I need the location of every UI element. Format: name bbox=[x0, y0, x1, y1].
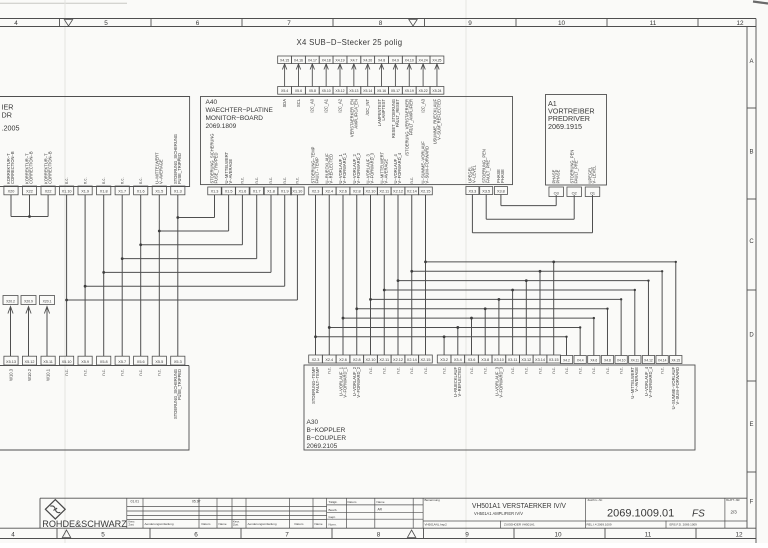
svg-text:B−KOPPLER: B−KOPPLER bbox=[307, 427, 346, 434]
svg-text:X4.6: X4.6 bbox=[590, 358, 597, 362]
svg-text:V−REFLECTED: V−REFLECTED bbox=[457, 367, 462, 397]
svg-text:7: 7 bbox=[287, 20, 291, 27]
svg-text:X4.9: X4.9 bbox=[392, 58, 399, 62]
svg-text:X2.10: X2.10 bbox=[366, 358, 376, 362]
svg-text:X2.11: X2.11 bbox=[379, 358, 389, 362]
svg-text:X1.6: X1.6 bbox=[137, 190, 145, 194]
svg-text:I2C_A2: I2C_A2 bbox=[337, 98, 342, 112]
svg-text:CORRECTION−B: CORRECTION−B bbox=[10, 151, 15, 184]
svg-text:n.c.: n.c. bbox=[101, 369, 106, 376]
svg-text:X2.3: X2.3 bbox=[312, 190, 320, 194]
svg-text:X5.17: X5.17 bbox=[391, 89, 400, 93]
svg-text:X4.20: X4.20 bbox=[363, 58, 372, 62]
svg-text:FAULT_AMPLIFIER: FAULT_AMPLIFIER bbox=[409, 99, 414, 135]
svg-text:Zust.: Zust. bbox=[129, 523, 135, 527]
svg-text:X3.10: X3.10 bbox=[494, 358, 504, 362]
svg-text:X2.10: X2.10 bbox=[366, 190, 376, 194]
svg-text:n.c.: n.c. bbox=[157, 369, 162, 376]
svg-text:X3.2: X3.2 bbox=[440, 358, 448, 362]
svg-text:X4.16: X4.16 bbox=[294, 58, 303, 62]
svg-text:X2.12: X2.12 bbox=[393, 358, 403, 362]
svg-text:FUSE_TRIPPED: FUSE_TRIPPED bbox=[177, 153, 182, 184]
svg-text:B−COUPLER: B−COUPLER bbox=[307, 435, 347, 442]
svg-text:11: 11 bbox=[645, 532, 652, 539]
svg-text:8: 8 bbox=[379, 20, 383, 27]
svg-text:X5.12: X5.12 bbox=[335, 89, 344, 93]
svg-text:W10.1: W10.1 bbox=[46, 368, 51, 381]
svg-text:V−SUM−FORWARD: V−SUM−FORWARD bbox=[675, 367, 680, 405]
svg-text:9: 9 bbox=[465, 532, 469, 539]
svg-text:n.c.: n.c. bbox=[64, 177, 69, 184]
svg-text:X2.8: X2.8 bbox=[353, 190, 361, 194]
svg-text:X2.4: X2.4 bbox=[325, 190, 333, 194]
svg-text:n.c.: n.c. bbox=[409, 367, 414, 374]
svg-text:n.c.: n.c. bbox=[660, 367, 665, 374]
svg-text:V−LEVEL: V−LEVEL bbox=[472, 164, 477, 183]
svg-text:X5.10: X5.10 bbox=[62, 360, 72, 364]
svg-text:X3.5: X3.5 bbox=[482, 189, 490, 193]
svg-text:X22: X22 bbox=[45, 190, 52, 194]
svg-text:I2C_A1: I2C_A1 bbox=[324, 98, 329, 112]
svg-text:Zust.: Zust. bbox=[233, 523, 239, 527]
svg-text:W10.3: W10.3 bbox=[8, 368, 13, 381]
svg-text:X2.15: X2.15 bbox=[421, 190, 431, 194]
svg-text:AMPLIFICA_EN: AMPLIFICA_EN bbox=[353, 99, 358, 129]
svg-text:I2C_A0: I2C_A0 bbox=[310, 98, 315, 112]
svg-text:X2.15: X2.15 bbox=[421, 358, 431, 362]
svg-text:/I2C_INT: /I2C_INT bbox=[365, 99, 370, 116]
svg-text:O1: O1 bbox=[590, 191, 595, 195]
svg-text:X4.15: X4.15 bbox=[671, 358, 680, 362]
svg-text:FAULT−TEMP: FAULT−TEMP bbox=[315, 367, 320, 393]
svg-text:C: C bbox=[749, 239, 754, 245]
svg-text:DR: DR bbox=[2, 111, 12, 120]
svg-text:FAULT_RESET: FAULT_RESET bbox=[395, 99, 400, 128]
svg-text:X20.2: X20.2 bbox=[6, 299, 15, 303]
svg-text:MONITOR−BOARD: MONITOR−BOARD bbox=[206, 115, 264, 122]
svg-text:n.c.: n.c. bbox=[442, 367, 447, 374]
svg-text:Gepr.: Gepr. bbox=[329, 515, 337, 519]
svg-text:n.c.: n.c. bbox=[619, 367, 624, 374]
svg-text:X2.3: X2.3 bbox=[312, 358, 320, 362]
svg-text:X3.6: X3.6 bbox=[468, 358, 476, 362]
svg-text:V−FORWARD_3: V−FORWARD_3 bbox=[370, 152, 375, 183]
svg-text:X4.14: X4.14 bbox=[658, 358, 667, 362]
svg-text:X1.10: X1.10 bbox=[292, 190, 302, 194]
svg-text:Name: Name bbox=[315, 522, 323, 526]
svg-text:ROHDE&SCHWARZ: ROHDE&SCHWARZ bbox=[42, 519, 127, 529]
svg-text:V−SUM−FORWARD: V−SUM−FORWARD bbox=[425, 146, 430, 184]
svg-text:LAMPTEST: LAMPTEST bbox=[381, 99, 386, 121]
svg-text:Name: Name bbox=[377, 500, 385, 504]
svg-text:V−AVERAGE: V−AVERAGE bbox=[634, 367, 639, 392]
svg-text:01.01: 01.01 bbox=[131, 499, 140, 503]
svg-text:X2.8: X2.8 bbox=[353, 358, 361, 362]
svg-text:Datum: Datum bbox=[348, 500, 357, 504]
svg-text:n.c.: n.c. bbox=[327, 367, 332, 374]
svg-text:4: 4 bbox=[11, 532, 15, 539]
svg-text:V−FORWARD_3: V−FORWARD_3 bbox=[498, 366, 503, 397]
svg-text:X3.14: X3.14 bbox=[535, 358, 545, 362]
svg-text:B: B bbox=[749, 150, 753, 156]
svg-text:12: 12 bbox=[736, 20, 744, 27]
svg-text:FAULT−TEMP: FAULT−TEMP bbox=[315, 157, 320, 183]
svg-text:X4.12: X4.12 bbox=[644, 358, 653, 362]
svg-text:V−FORWARD_1: V−FORWARD_1 bbox=[342, 366, 347, 397]
svg-text:V−FORWARD_4: V−FORWARD_4 bbox=[397, 152, 402, 183]
svg-text:VH501A1 AMPLIFIER IV/V: VH501A1 AMPLIFIER IV/V bbox=[474, 511, 523, 516]
svg-text:n.c.: n.c. bbox=[64, 369, 69, 376]
svg-text:FAULT_PRE: FAULT_PRE bbox=[573, 160, 578, 183]
svg-text:2/3: 2/3 bbox=[731, 510, 738, 515]
svg-text:n.c.: n.c. bbox=[483, 367, 488, 374]
svg-text:n.c.: n.c. bbox=[120, 369, 125, 376]
svg-text:n.c.: n.c. bbox=[138, 177, 143, 184]
svg-text:X3.8: X3.8 bbox=[481, 358, 489, 362]
svg-text:n.c.: n.c. bbox=[268, 177, 273, 184]
svg-text:6: 6 bbox=[194, 532, 198, 539]
svg-text:n.c.: n.c. bbox=[510, 367, 515, 374]
svg-text:Aenderungsmitteilung: Aenderungsmitteilung bbox=[145, 522, 174, 526]
svg-text:X4.11: X4.11 bbox=[631, 358, 640, 362]
svg-text:05.97: 05.97 bbox=[192, 499, 201, 503]
svg-text:X5.5: X5.5 bbox=[155, 360, 163, 364]
svg-text:n.c.: n.c. bbox=[382, 367, 387, 374]
svg-text:n.c.: n.c. bbox=[578, 367, 583, 374]
svg-text:X5.24: X5.24 bbox=[432, 89, 441, 93]
svg-text:Name: Name bbox=[219, 522, 227, 526]
svg-text:X1.7: X1.7 bbox=[253, 190, 261, 194]
svg-text:n.c.: n.c. bbox=[537, 367, 542, 374]
svg-text:2069.1809: 2069.1809 bbox=[206, 123, 237, 130]
svg-text:8: 8 bbox=[377, 532, 381, 539]
svg-text:n.c.: n.c. bbox=[82, 177, 87, 184]
svg-text:X1.8: X1.8 bbox=[100, 190, 108, 194]
svg-text:X5.16: X5.16 bbox=[377, 89, 386, 93]
svg-text:5: 5 bbox=[104, 20, 108, 27]
svg-text:Aenderungsmitteilung: Aenderungsmitteilung bbox=[248, 522, 277, 526]
svg-text:X1.3: X1.3 bbox=[174, 190, 182, 194]
svg-text:X5.4: X5.4 bbox=[281, 89, 288, 93]
svg-text:X5.14: X5.14 bbox=[363, 89, 372, 93]
svg-text:n.c.: n.c. bbox=[295, 177, 300, 184]
svg-text:FUSE_TRIPPED: FUSE_TRIPPED bbox=[177, 369, 182, 400]
svg-text:X5.13: X5.13 bbox=[6, 360, 16, 364]
svg-text:FAULT_PRE: FAULT_PRE bbox=[485, 160, 490, 183]
svg-text:n.c.: n.c. bbox=[591, 367, 596, 374]
svg-text:X5.13: X5.13 bbox=[349, 89, 358, 93]
svg-text:X4.24: X4.24 bbox=[419, 58, 428, 62]
svg-text:n.c.: n.c. bbox=[564, 367, 569, 374]
svg-text:n.c.: n.c. bbox=[83, 369, 88, 376]
svg-text:X5.19: X5.19 bbox=[405, 89, 414, 93]
svg-text:n.c.: n.c. bbox=[240, 177, 245, 184]
svg-text:SDA: SDA bbox=[282, 99, 287, 108]
svg-text:X4.15: X4.15 bbox=[280, 58, 289, 62]
svg-text:X3.3: X3.3 bbox=[468, 189, 476, 193]
svg-text:PHASE: PHASE bbox=[555, 169, 560, 183]
svg-text:X2.14: X2.14 bbox=[407, 190, 417, 194]
svg-text:n.c.: n.c. bbox=[254, 177, 259, 184]
svg-text:CORRECTION−B: CORRECTION−B bbox=[29, 151, 34, 184]
svg-text:X4.8: X4.8 bbox=[378, 58, 385, 62]
svg-text:n.c.: n.c. bbox=[138, 369, 143, 376]
svg-text:9: 9 bbox=[468, 20, 472, 27]
svg-text:Norm.: Norm. bbox=[329, 522, 337, 526]
svg-text:X1.9: X1.9 bbox=[81, 190, 89, 194]
svg-text:X2.14: X2.14 bbox=[407, 358, 417, 362]
svg-text:X4.10: X4.10 bbox=[617, 358, 626, 362]
svg-text:X3.8: X3.8 bbox=[497, 189, 505, 193]
svg-text:X1.3: X1.3 bbox=[211, 190, 219, 194]
svg-text:X22: X22 bbox=[26, 190, 33, 194]
svg-text:V−FORWARD_2: V−FORWARD_2 bbox=[356, 366, 361, 397]
svg-text:AR: AR bbox=[378, 508, 383, 512]
svg-text:X2.6: X2.6 bbox=[339, 190, 347, 194]
svg-text:n.c.: n.c. bbox=[119, 177, 124, 184]
svg-text:X3.4: X3.4 bbox=[454, 358, 462, 362]
svg-text:X2.11: X2.11 bbox=[379, 190, 389, 194]
svg-text:FS: FS bbox=[692, 509, 705, 520]
svg-text:X4.8: X4.8 bbox=[604, 358, 611, 362]
svg-text:X5.8: X5.8 bbox=[309, 89, 316, 93]
svg-text:PHASE: PHASE bbox=[500, 169, 505, 183]
svg-text:X3.15: X3.15 bbox=[549, 358, 559, 362]
svg-text:WAECHTER−PLATINE: WAECHTER−PLATINE bbox=[206, 107, 274, 114]
svg-text:X1.9: X1.9 bbox=[281, 190, 289, 194]
svg-text:X3.12: X3.12 bbox=[521, 358, 531, 362]
svg-text:n.c.: n.c. bbox=[551, 367, 556, 374]
svg-text:X5.10: X5.10 bbox=[322, 89, 331, 93]
svg-text:11: 11 bbox=[650, 20, 657, 27]
svg-text:10: 10 bbox=[554, 532, 562, 539]
svg-text:X5.12: X5.12 bbox=[25, 360, 35, 364]
svg-text:Benennung: Benennung bbox=[425, 498, 441, 502]
svg-text:A30: A30 bbox=[307, 419, 319, 426]
svg-text:V−FORWARD_2: V−FORWARD_2 bbox=[356, 152, 361, 183]
svg-text:X4 SUB−D−Stecker 25 polig: X4 SUB−D−Stecker 25 polig bbox=[297, 38, 403, 47]
svg-text:X4.17: X4.17 bbox=[308, 58, 317, 62]
svg-text:X4.7: X4.7 bbox=[350, 58, 357, 62]
svg-text:4: 4 bbox=[14, 20, 18, 27]
svg-text:BLATT−NR.: BLATT−NR. bbox=[726, 498, 740, 502]
svg-text:X1.6: X1.6 bbox=[238, 190, 246, 194]
svg-text:Zeichn.−Nr.: Zeichn.−Nr. bbox=[588, 498, 604, 502]
svg-text:X5.7: X5.7 bbox=[118, 360, 126, 364]
svg-text:n.c.: n.c. bbox=[282, 177, 287, 184]
svg-text:n.c.: n.c. bbox=[409, 177, 414, 184]
svg-text:Tätigk.: Tätigk. bbox=[329, 500, 338, 504]
svg-text:X4.4: X4.4 bbox=[577, 358, 584, 362]
svg-text:X5.8: X5.8 bbox=[100, 360, 108, 364]
svg-text:Bearb.: Bearb. bbox=[329, 508, 338, 512]
svg-text:CORRECTION−B: CORRECTION−B bbox=[47, 151, 52, 184]
svg-text:A: A bbox=[749, 59, 753, 65]
svg-text:X5.11: X5.11 bbox=[43, 360, 53, 364]
svg-text:ERS.F.D. 2069.1009: ERS.F.D. 2069.1009 bbox=[670, 522, 698, 526]
svg-text:Datum: Datum bbox=[295, 522, 304, 526]
svg-text:I2C_A3: I2C_A3 bbox=[421, 98, 426, 112]
svg-text:V−AVERAGE: V−AVERAGE bbox=[383, 159, 388, 184]
svg-text:V−FORWARD_4: V−FORWARD_4 bbox=[648, 366, 653, 397]
svg-text:X1.7: X1.7 bbox=[118, 190, 126, 194]
svg-text:V−AVERAGE: V−AVERAGE bbox=[228, 159, 233, 184]
svg-text:FUSE_TRIPPED: FUSE_TRIPPED bbox=[214, 153, 219, 184]
svg-text:X4.19: X4.19 bbox=[335, 58, 344, 62]
svg-text:n.c.: n.c. bbox=[524, 367, 529, 374]
svg-text:F: F bbox=[750, 500, 754, 506]
svg-text:A40: A40 bbox=[206, 99, 218, 106]
svg-text:2069.2105: 2069.2105 bbox=[307, 443, 338, 450]
svg-text:X4.10: X4.10 bbox=[405, 58, 414, 62]
svg-text:6: 6 bbox=[196, 20, 200, 27]
svg-text:E: E bbox=[749, 422, 753, 428]
svg-text:X5.22: X5.22 bbox=[419, 89, 428, 93]
svg-text:2069.1009.01: 2069.1009.01 bbox=[607, 508, 674, 520]
svg-text:D: D bbox=[749, 333, 754, 339]
svg-text:X1.5: X1.5 bbox=[155, 190, 163, 194]
svg-text:X20.1: X20.1 bbox=[43, 299, 52, 303]
svg-text:X20.9: X20.9 bbox=[24, 299, 33, 303]
svg-text:n.c.: n.c. bbox=[469, 367, 474, 374]
svg-text:V−AVERAGE: V−AVERAGE bbox=[159, 159, 164, 184]
svg-text:5: 5 bbox=[101, 532, 105, 539]
svg-text:X1.10: X1.10 bbox=[62, 190, 72, 194]
svg-text:REL.I.4 2069.1009: REL.I.4 2069.1009 bbox=[587, 522, 612, 526]
svg-text:X1.8: X1.8 bbox=[267, 190, 275, 194]
svg-text:X1.5: X1.5 bbox=[225, 190, 233, 194]
svg-text:VH501A1 VERSTAERKER IV/V: VH501A1 VERSTAERKER IV/V bbox=[472, 501, 567, 510]
svg-text:n.c.: n.c. bbox=[395, 367, 400, 374]
svg-text:W10.2: W10.2 bbox=[27, 368, 32, 381]
svg-text:X5.3: X5.3 bbox=[174, 360, 182, 364]
svg-text:X4.18: X4.18 bbox=[322, 58, 331, 62]
svg-text:n.c.: n.c. bbox=[101, 177, 106, 184]
svg-text:X5.6: X5.6 bbox=[137, 360, 145, 364]
svg-text:ZUGEHOER VH501A1: ZUGEHOER VH501A1 bbox=[504, 522, 535, 526]
svg-text:n.c.: n.c. bbox=[423, 367, 428, 374]
svg-text:2069.1915: 2069.1915 bbox=[548, 122, 582, 131]
svg-text:12: 12 bbox=[735, 532, 743, 539]
svg-text:X4.2: X4.2 bbox=[563, 358, 570, 362]
svg-text:n.c.: n.c. bbox=[605, 367, 610, 374]
svg-text:X20: X20 bbox=[8, 190, 15, 194]
svg-text:X2.12: X2.12 bbox=[393, 190, 403, 194]
svg-text:O3: O3 bbox=[554, 191, 559, 195]
svg-text:.2005: .2005 bbox=[2, 124, 20, 133]
svg-text:V−SUM_REFLECTED: V−SUM_REFLECTED bbox=[436, 99, 441, 140]
svg-text:7: 7 bbox=[285, 532, 289, 539]
svg-text:V−FORWARD_1: V−FORWARD_1 bbox=[342, 152, 347, 183]
svg-text:V−REFLECTED: V−REFLECTED bbox=[328, 154, 333, 184]
svg-text:n.c.: n.c. bbox=[368, 367, 373, 374]
svg-text:Datum: Datum bbox=[202, 522, 211, 526]
svg-text:X2.4: X2.4 bbox=[325, 358, 333, 362]
svg-text:X5.9: X5.9 bbox=[81, 360, 89, 364]
svg-text:O2: O2 bbox=[572, 191, 577, 195]
svg-text:X5.6: X5.6 bbox=[295, 89, 302, 93]
svg-text:X3.11: X3.11 bbox=[508, 358, 518, 362]
svg-text:SCL: SCL bbox=[296, 98, 301, 107]
svg-text:X2.6: X2.6 bbox=[339, 358, 347, 362]
svg-text:X4.25: X4.25 bbox=[432, 58, 441, 62]
svg-text:V−LEVEL: V−LEVEL bbox=[592, 165, 597, 184]
svg-text:10: 10 bbox=[558, 20, 566, 27]
svg-text:VH501ANL hsp2: VH501ANL hsp2 bbox=[425, 522, 448, 526]
